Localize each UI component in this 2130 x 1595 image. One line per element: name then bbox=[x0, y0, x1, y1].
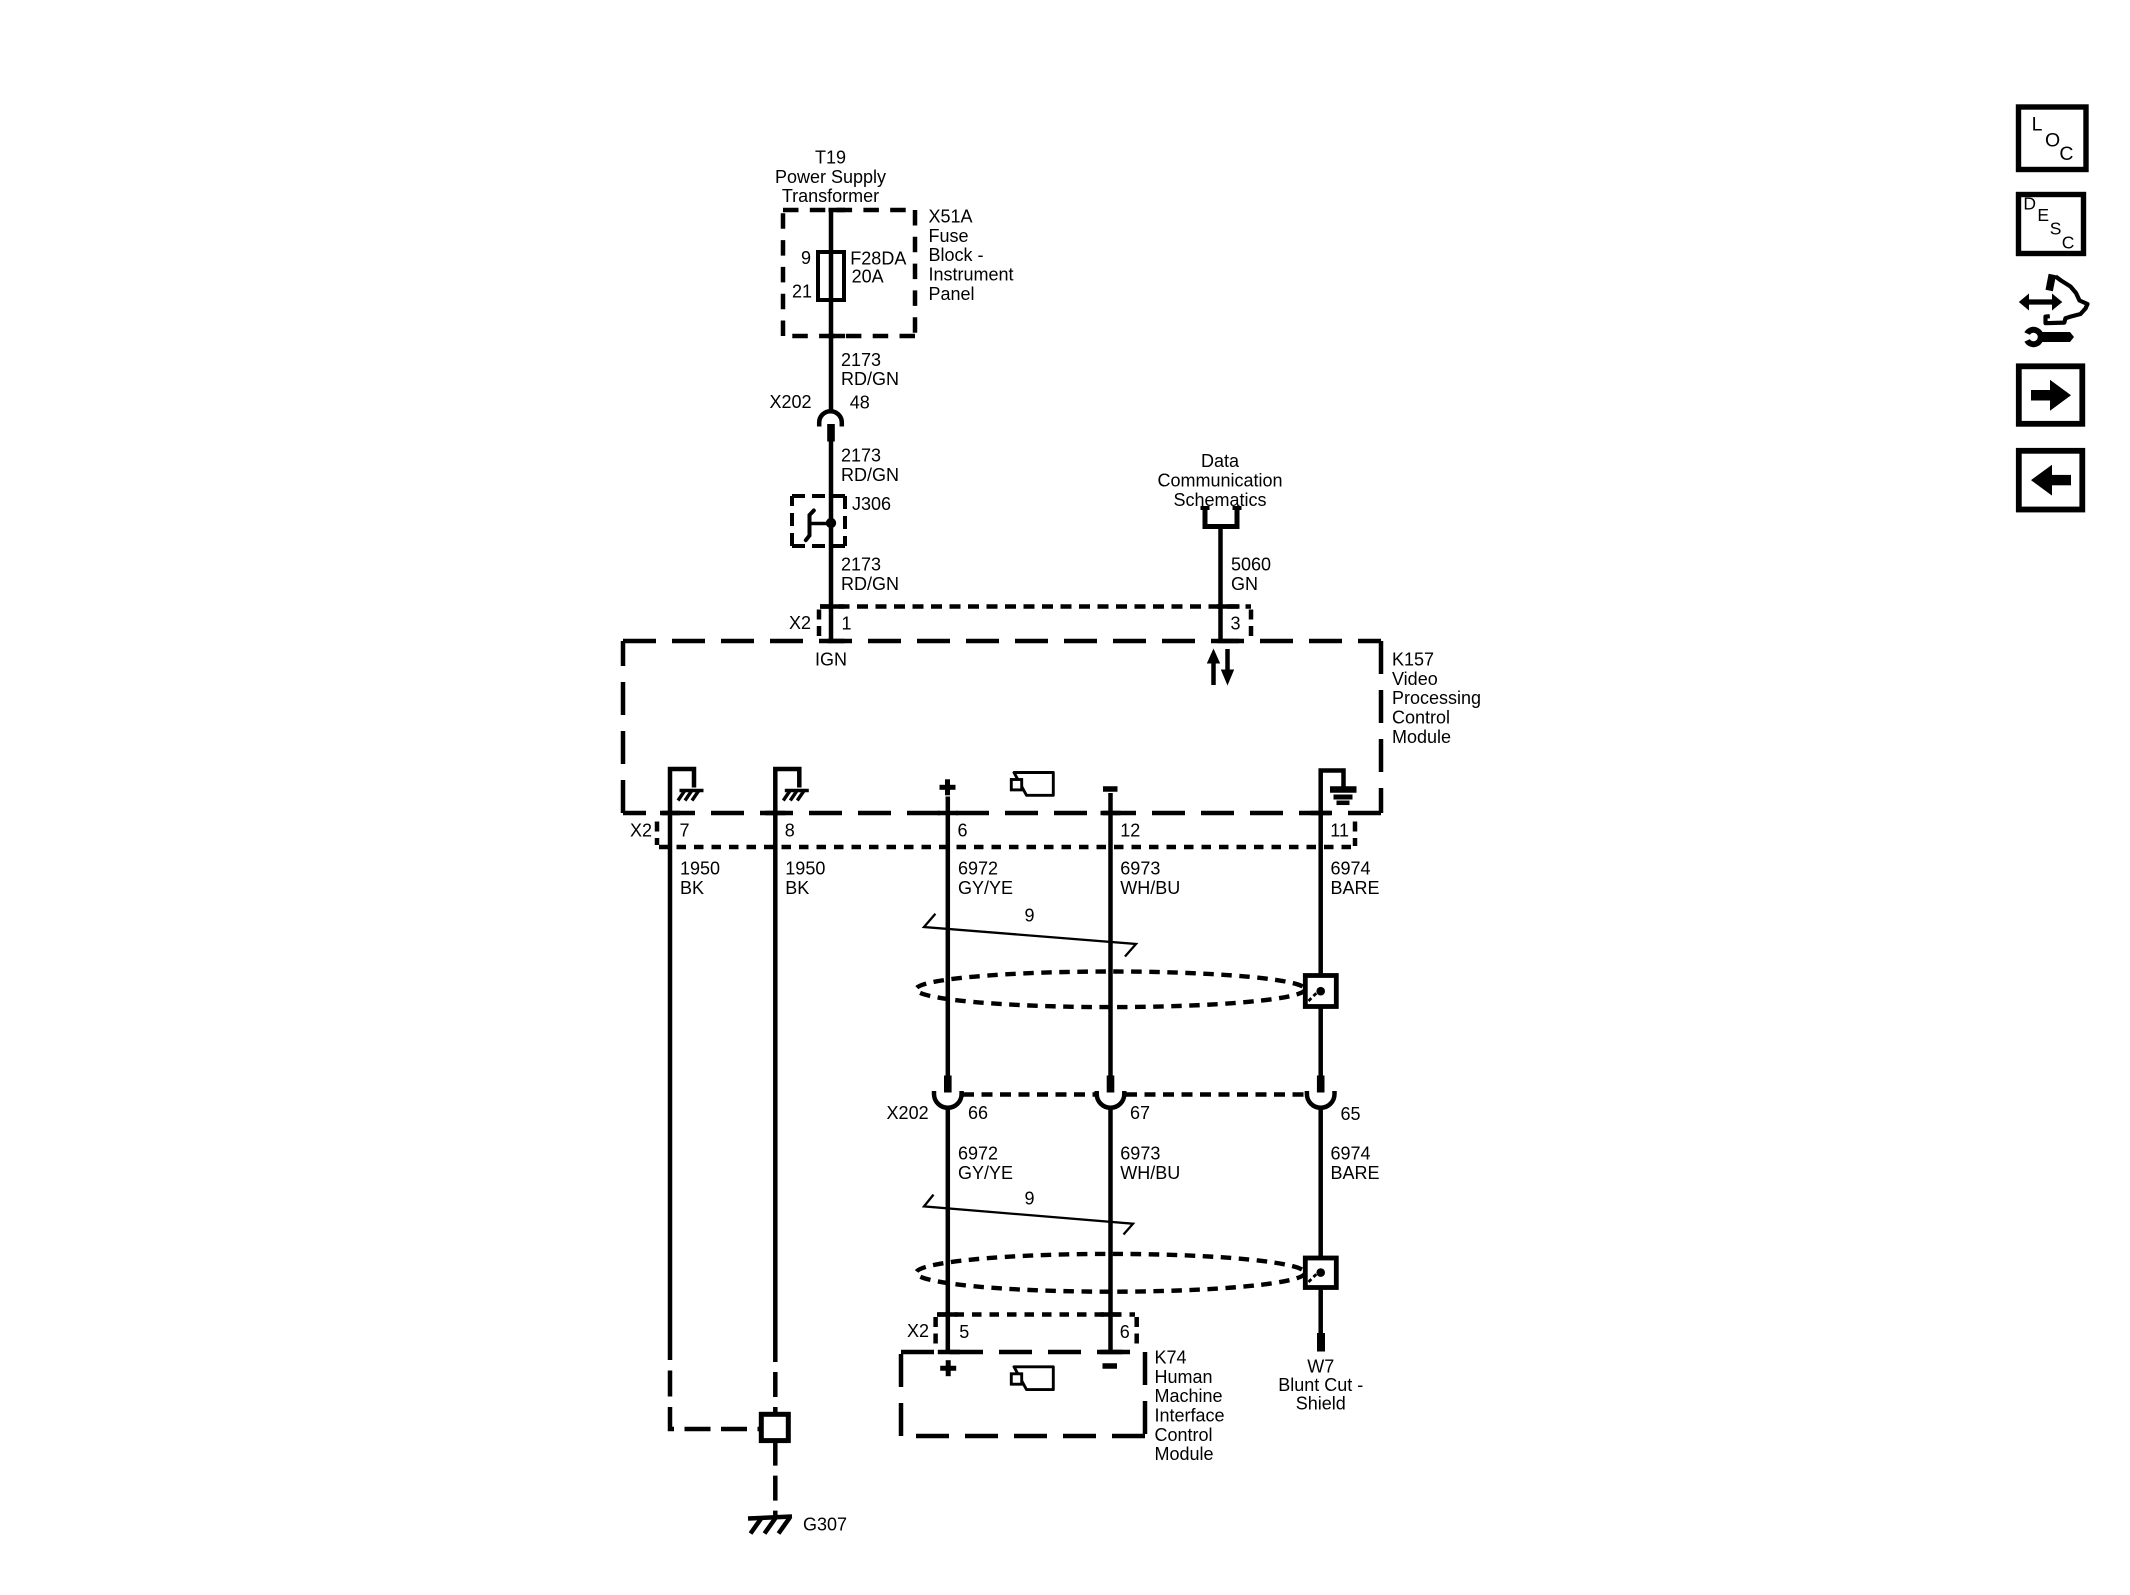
svg-text:65: 65 bbox=[1341, 1104, 1361, 1124]
svg-text:6: 6 bbox=[958, 821, 968, 841]
svg-text:Control: Control bbox=[1392, 707, 1450, 727]
svg-text:WH/BU: WH/BU bbox=[1120, 878, 1180, 898]
svg-text:IGN: IGN bbox=[815, 649, 847, 669]
svg-text:21: 21 bbox=[792, 281, 812, 301]
svg-text:GY/YE: GY/YE bbox=[958, 1163, 1013, 1183]
svg-text:48: 48 bbox=[850, 393, 870, 413]
svg-text:2173: 2173 bbox=[841, 446, 881, 466]
svg-text:S: S bbox=[2050, 219, 2062, 239]
svg-text:12: 12 bbox=[1120, 821, 1140, 841]
svg-text:GY/YE: GY/YE bbox=[958, 878, 1013, 898]
svg-text:Instrument: Instrument bbox=[929, 264, 1014, 284]
svg-text:Blunt Cut -: Blunt Cut - bbox=[1278, 1375, 1363, 1395]
svg-text:1950: 1950 bbox=[785, 858, 825, 878]
svg-text:Data: Data bbox=[1201, 451, 1240, 471]
svg-text:Shield: Shield bbox=[1296, 1394, 1346, 1414]
svg-text:5: 5 bbox=[959, 1322, 969, 1342]
svg-text:BK: BK bbox=[680, 878, 704, 898]
svg-text:6973: 6973 bbox=[1120, 858, 1160, 878]
svg-text:66: 66 bbox=[968, 1103, 988, 1123]
svg-text:WH/BU: WH/BU bbox=[1120, 1163, 1180, 1183]
svg-text:BARE: BARE bbox=[1331, 1163, 1380, 1183]
svg-text:Control: Control bbox=[1155, 1425, 1213, 1445]
svg-text:Block -: Block - bbox=[929, 245, 984, 265]
svg-text:9: 9 bbox=[801, 248, 811, 268]
svg-text:BARE: BARE bbox=[1331, 878, 1380, 898]
svg-text:Communication: Communication bbox=[1157, 471, 1282, 491]
svg-text:5060: 5060 bbox=[1231, 555, 1271, 575]
svg-text:K74: K74 bbox=[1155, 1347, 1187, 1367]
svg-text:6974: 6974 bbox=[1331, 858, 1371, 878]
svg-text:E: E bbox=[2037, 205, 2049, 225]
svg-text:C: C bbox=[2062, 233, 2075, 253]
svg-text:F28DA: F28DA bbox=[850, 248, 906, 268]
svg-text:Processing: Processing bbox=[1392, 688, 1481, 708]
svg-text:Fuse: Fuse bbox=[929, 226, 969, 246]
svg-text:X2: X2 bbox=[907, 1321, 929, 1341]
svg-text:11: 11 bbox=[1330, 821, 1349, 841]
svg-text:1: 1 bbox=[842, 613, 852, 633]
svg-text:6974: 6974 bbox=[1331, 1144, 1371, 1164]
svg-text:9: 9 bbox=[1025, 906, 1035, 926]
svg-text:9: 9 bbox=[1025, 1189, 1035, 1209]
svg-text:2173: 2173 bbox=[841, 350, 881, 370]
svg-text:Power Supply: Power Supply bbox=[775, 167, 886, 187]
svg-text:7: 7 bbox=[680, 821, 690, 841]
svg-text:Human: Human bbox=[1155, 1367, 1213, 1387]
svg-text:X2: X2 bbox=[630, 821, 652, 841]
svg-text:67: 67 bbox=[1130, 1103, 1150, 1123]
svg-text:Transformer: Transformer bbox=[782, 186, 879, 206]
svg-text:6972: 6972 bbox=[958, 858, 998, 878]
svg-text:8: 8 bbox=[785, 821, 795, 841]
svg-text:C: C bbox=[2059, 143, 2073, 165]
svg-text:3: 3 bbox=[1231, 613, 1241, 633]
svg-text:L: L bbox=[2032, 114, 2043, 136]
svg-text:D: D bbox=[2023, 193, 2036, 213]
svg-text:RD/GN: RD/GN bbox=[841, 574, 899, 594]
svg-text:X202: X202 bbox=[887, 1103, 929, 1123]
svg-text:Video: Video bbox=[1392, 669, 1438, 689]
svg-text:BK: BK bbox=[785, 878, 809, 898]
svg-text:Module: Module bbox=[1392, 727, 1451, 747]
svg-text:6973: 6973 bbox=[1120, 1144, 1160, 1164]
svg-text:G307: G307 bbox=[803, 1514, 847, 1534]
svg-text:Panel: Panel bbox=[929, 284, 975, 304]
svg-text:RD/GN: RD/GN bbox=[841, 369, 899, 389]
svg-text:X202: X202 bbox=[769, 392, 811, 412]
svg-text:J306: J306 bbox=[852, 494, 891, 514]
svg-text:Interface: Interface bbox=[1155, 1405, 1225, 1425]
svg-text:O: O bbox=[2045, 130, 2060, 152]
svg-text:6972: 6972 bbox=[958, 1144, 998, 1164]
svg-text:K157: K157 bbox=[1392, 649, 1434, 669]
svg-text:Machine: Machine bbox=[1155, 1386, 1223, 1406]
svg-text:Module: Module bbox=[1155, 1444, 1214, 1464]
svg-text:W7: W7 bbox=[1307, 1357, 1334, 1377]
svg-text:RD/GN: RD/GN bbox=[841, 465, 899, 485]
svg-text:20A: 20A bbox=[852, 267, 884, 287]
svg-text:GN: GN bbox=[1231, 574, 1258, 594]
svg-text:Schematics: Schematics bbox=[1173, 490, 1266, 510]
svg-text:2173: 2173 bbox=[841, 555, 881, 575]
svg-text:X51A: X51A bbox=[929, 206, 973, 226]
svg-text:6: 6 bbox=[1120, 1322, 1130, 1342]
svg-text:T19: T19 bbox=[815, 147, 846, 167]
svg-text:X2: X2 bbox=[789, 613, 811, 633]
svg-text:1950: 1950 bbox=[680, 858, 720, 878]
